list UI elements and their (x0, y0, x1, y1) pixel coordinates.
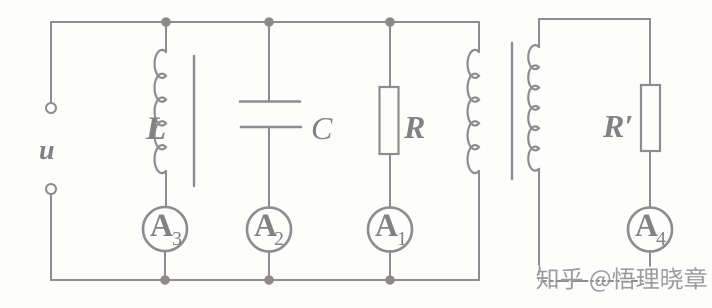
svg-text:C: C (311, 110, 333, 146)
wire secondary left side (538, 169, 540, 281)
capacitor C top plate (240, 100, 300, 103)
ammeter A1 circle (368, 208, 412, 252)
svg-text:2: 2 (274, 228, 284, 250)
svg-text:3: 3 (172, 228, 182, 250)
transformer secondary coil (528, 45, 539, 171)
resistor R' box (641, 85, 660, 151)
transformer primary coil (468, 50, 479, 173)
ammeter A4 circle (628, 208, 672, 252)
svg-text:R: R (403, 109, 425, 145)
terminal upper (46, 103, 56, 113)
wire A2 to bottom (268, 251, 270, 280)
svg-text:u: u (39, 135, 55, 166)
svg-text:R′: R′ (602, 108, 633, 144)
terminal lower (46, 184, 56, 194)
wire A4 to bottom (649, 251, 651, 281)
wire left rail lower (50, 194, 52, 280)
wire C branch to A2 (268, 127, 270, 208)
node bottom R (385, 275, 395, 285)
transformer core bar (511, 43, 513, 179)
svg-text:1: 1 (397, 228, 407, 250)
svg-text:4: 4 (656, 228, 666, 250)
node top C (264, 17, 274, 27)
inductor L coil (155, 50, 166, 173)
capacitor C bottom plate (241, 126, 301, 129)
wire L branch top (165, 22, 167, 52)
watermark zhihu white emboss (534, 265, 704, 290)
wire A1 to bottom (389, 251, 391, 280)
wire R' to A4 (649, 151, 651, 208)
wire C branch top (268, 22, 270, 101)
node top L (161, 17, 171, 27)
wire left rail upper (50, 22, 52, 103)
watermark zhihu gray text (536, 267, 706, 292)
wire primary branch top (478, 22, 480, 52)
node top R (385, 17, 395, 27)
ammeter A2 circle (247, 208, 291, 252)
inductor L core bar (193, 56, 195, 186)
node bottom L (160, 275, 170, 285)
wire R branch top (389, 22, 391, 87)
wire R branch to A1 (389, 154, 391, 208)
svg-text:A: A (635, 208, 658, 244)
wire top rail (51, 21, 479, 23)
svg-text:A: A (375, 208, 398, 244)
svg-text:A: A (150, 208, 173, 244)
wire L branch to A3 (165, 171, 167, 207)
wire A3 to bottom (164, 251, 166, 280)
wire primary branch bottom (478, 171, 480, 280)
svg-text:L: L (145, 111, 166, 147)
wire secondary top (539, 19, 650, 85)
node bottom C (264, 275, 274, 285)
ammeter A3 circle (143, 207, 187, 251)
resistor R box (380, 87, 399, 154)
wire bottom rail (51, 279, 479, 281)
wire secondary bottom (539, 280, 650, 282)
